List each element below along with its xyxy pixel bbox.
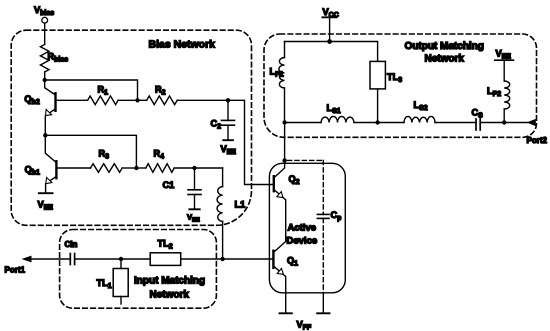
inductor LS1	[321, 116, 354, 122]
node C1 tap	[192, 166, 196, 170]
inductor L1	[222, 168, 224, 187]
transmission line TL2	[150, 253, 181, 266]
wire TL2 to Q1 base	[181, 258, 274, 260]
capacitor CS	[475, 119, 477, 130]
supply VEE under C2	[223, 139, 233, 141]
wire Vbias to Rbias	[44, 23, 46, 44]
resistor Rbias	[40, 44, 49, 72]
supply VEE under C1	[189, 208, 199, 210]
node R3-R4 junction	[134, 166, 138, 170]
wire collector node up to output rail	[284, 123, 286, 161]
svg-text:Network: Network	[425, 54, 465, 65]
svg-text:Active: Active	[288, 223, 317, 234]
inductor LP2	[503, 109, 505, 123]
wire C2 node to Q2 base	[228, 100, 274, 184]
svg-text:Port2: Port2	[527, 136, 548, 145]
wire output top rail	[285, 42, 378, 62]
node LP1 bottom on bottom rail	[282, 120, 286, 124]
wire C1 node to L1	[195, 167, 223, 169]
svg-text:Output Matching: Output Matching	[405, 41, 484, 52]
node A Rbias bottom	[43, 78, 47, 82]
svg-text:C1: C1	[163, 180, 175, 190]
capacitor Cin	[69, 254, 71, 265]
capacitor C2	[227, 100, 229, 120]
transmission line TL1 (shunt stub)	[120, 259, 122, 269]
resistor R3	[56, 167, 90, 169]
svg-text:Bias Network: Bias Network	[149, 39, 216, 51]
transistor Q2	[274, 160, 300, 241]
node VCC on top rail	[327, 39, 332, 44]
resistor R4	[136, 167, 145, 169]
wire TL1 node to TL2	[121, 258, 150, 260]
node C2 tap	[226, 98, 230, 102]
supply VEE under Qb1	[39, 192, 53, 194]
capacitor Cp (dashed connection)	[288, 159, 324, 161]
terminal Vbias	[42, 17, 48, 23]
inductor LP1	[284, 42, 286, 58]
box Active Device	[269, 163, 345, 292]
port Port1 arrow	[30, 258, 70, 260]
wire output bottom rail segments	[285, 122, 528, 124]
node Q2 collector	[282, 158, 286, 162]
resistor R2	[138, 99, 147, 101]
box Bias Network	[11, 30, 251, 225]
transistor Q1	[273, 242, 298, 314]
transistor Qb1	[25, 135, 57, 193]
transmission line TL3	[370, 61, 385, 89]
wire node A to R1-R2 junction	[45, 80, 138, 100]
supply VFF bars	[280, 312, 292, 314]
svg-text:Device: Device	[287, 236, 318, 247]
transistor Qb2	[24, 80, 55, 135]
wire node B to R3-R4 junction	[45, 135, 136, 168]
svg-text:Input Matching: Input Matching	[134, 276, 205, 287]
node L1 bottom on input rail	[220, 257, 224, 261]
port Port2 arrow	[527, 119, 536, 126]
node CS-LP2 on rail	[502, 120, 506, 124]
svg-text:Network: Network	[150, 290, 190, 301]
supply VEE above LP2	[495, 59, 514, 61]
inductor LS2	[404, 116, 435, 122]
node TL3 bottom	[375, 120, 379, 124]
svg-text:L1: L1	[235, 200, 246, 210]
node B Qb2 emitter / Qb1 collector	[43, 133, 47, 137]
box Input Matching Network	[60, 230, 217, 309]
node R1-R2 junction	[135, 98, 139, 102]
svg-text:Port1: Port1	[5, 266, 26, 275]
svg-text:Cin: Cin	[65, 240, 78, 249]
node TL1 tap	[119, 257, 123, 261]
capacitor C1	[194, 168, 196, 190]
resistor R1	[56, 99, 88, 101]
box Output Matching Network	[264, 34, 537, 137]
wire Cin to TL1 node	[75, 258, 121, 260]
